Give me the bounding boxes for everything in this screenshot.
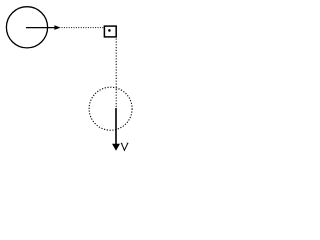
velocity arrow (horizontal, from ball centre) [26,25,61,30]
dot inside square [108,29,111,32]
ball (solid circle, top-left) [6,7,47,48]
label V [121,143,129,150]
velocity arrow V (vertical, downward) [112,108,120,151]
dotted trajectory (horizontal segment) [62,27,104,29]
square marker (table edge) [104,26,116,37]
dotted circle (ball at bottom) [89,87,132,130]
dotted trajectory (vertical segment) [115,39,117,108]
